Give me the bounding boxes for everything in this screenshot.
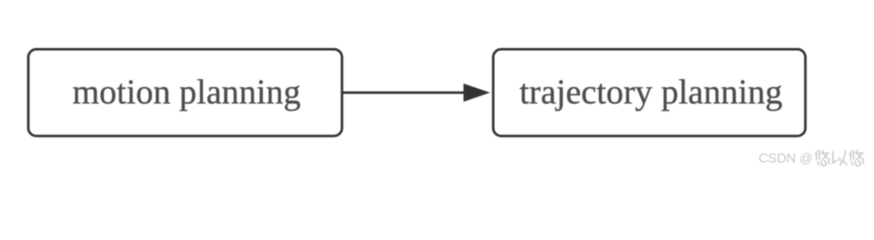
svg-text:CSDN @: CSDN @ (759, 151, 813, 166)
arrowhead (464, 84, 489, 101)
svg-text:motion planning: motion planning (72, 73, 300, 112)
以 (833, 151, 847, 165)
wire: arrow shaft (342, 91, 466, 94)
box: trajectory planning (493, 49, 805, 136)
box: motion planning (28, 49, 342, 136)
watermark CSDN @悠以悠 (759, 150, 864, 165)
悠 #1 (816, 150, 830, 165)
悠 #2 (850, 150, 864, 165)
hand-drawn CJK glyphs 悠以悠 (816, 150, 864, 165)
svg-text:trajectory planning: trajectory planning (520, 73, 783, 112)
